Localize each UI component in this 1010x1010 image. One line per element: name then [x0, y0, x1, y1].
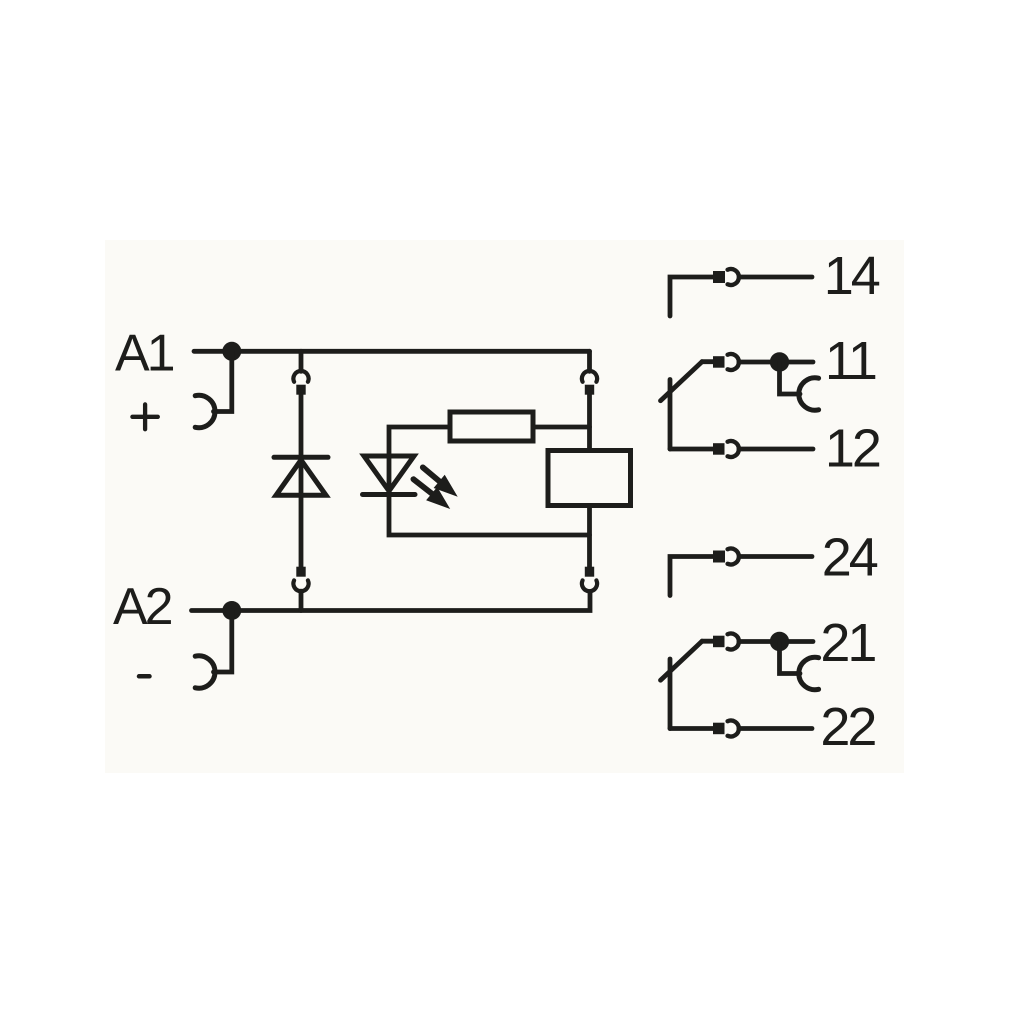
svg-text:24: 24	[822, 528, 878, 588]
junction dot 21	[770, 632, 789, 651]
relay coil K1	[548, 451, 631, 506]
contact lever 11 pole	[668, 380, 673, 450]
wire A2 drop to clamp	[214, 611, 232, 673]
clamp terminal 21 (cage clamp arc)	[799, 657, 819, 689]
wire contact 12	[670, 447, 713, 452]
polarity mark +	[132, 404, 157, 429]
wire 14 to label	[740, 275, 813, 280]
clamp terminal A1 (cage clamp arc)	[195, 395, 215, 427]
svg-text:A2: A2	[113, 578, 172, 636]
wire 24 to label	[740, 554, 813, 559]
wire contact 24	[670, 557, 713, 596]
plug pin contact 12	[713, 443, 725, 455]
wire resistor to coil branch	[533, 425, 590, 430]
wire lever to pin 21	[702, 639, 713, 644]
svg-text:11: 11	[825, 331, 876, 391]
wire plug to coil	[587, 395, 592, 451]
svg-text:A1: A1	[115, 325, 174, 383]
plug pin contact 21	[713, 636, 725, 648]
plug contact socket (diode branch bottom)	[293, 580, 308, 591]
wire LED loop bottom	[389, 456, 590, 535]
plug contact pin (coil branch top)	[585, 385, 594, 395]
plug socket contact 21	[728, 634, 739, 650]
wire contact 14	[670, 277, 713, 316]
junction dot A2	[222, 601, 241, 620]
contact lever 21 (movable arm)	[661, 641, 703, 680]
wire 12 to label	[739, 447, 813, 452]
wire diode branch upper stub	[299, 351, 304, 371]
wire 21 drop to clamp	[780, 642, 801, 674]
contact lever 11 (movable arm)	[661, 362, 703, 401]
plug socket contact 22	[728, 721, 739, 737]
junction dot A1	[222, 342, 241, 361]
wire to diode	[299, 395, 304, 567]
wire lever to pin 11	[702, 359, 713, 364]
wire A1 horizontal rail	[194, 349, 590, 354]
diode V1 triangle	[276, 460, 326, 495]
svg-text:14: 14	[824, 246, 880, 306]
LED emission arrow 2	[413, 479, 448, 507]
plug contact pin (diode branch bottom)	[296, 567, 305, 577]
wire diode branch lower stub	[299, 591, 304, 610]
wire coil to lower plug	[587, 506, 592, 567]
wire LED loop top	[389, 427, 450, 456]
wire 22 to label	[739, 726, 812, 731]
plug socket contact 12	[728, 441, 739, 457]
LED D1 cathode bar	[363, 492, 416, 497]
contact lever 21 pole	[668, 659, 673, 729]
LED emission arrow 1	[423, 467, 456, 495]
plug pin contact 22	[713, 723, 725, 735]
svg-text:12: 12	[825, 419, 880, 479]
diode V1 cathode bar	[274, 455, 328, 460]
wire 11 drop to clamp	[780, 362, 801, 394]
polarity mark -	[139, 674, 150, 679]
plug contact pin (diode branch top)	[296, 385, 305, 395]
plug pin contact 11	[713, 356, 725, 368]
svg-text:22: 22	[820, 697, 875, 757]
schematic background panel	[105, 240, 904, 773]
plug contact socket (coil branch bottom)	[582, 580, 597, 591]
junction dot 11	[770, 352, 789, 371]
plug contact socket (coil branch top)	[582, 371, 597, 382]
plug socket contact 24	[728, 549, 739, 565]
wire coil branch upper stub	[587, 351, 592, 371]
clamp terminal A2 (cage clamp arc)	[195, 656, 215, 688]
wire A2 horizontal rail	[192, 592, 591, 611]
clamp terminal 11 (cage clamp arc)	[799, 378, 819, 410]
plug contact socket (diode branch top)	[293, 371, 308, 382]
LED D1 triangle	[364, 456, 414, 491]
wire 11 to label	[739, 360, 813, 365]
resistor R1	[450, 412, 533, 441]
wire A1 drop to clamp	[214, 351, 232, 411]
plug contact pin (coil branch bottom)	[585, 567, 594, 577]
plug pin contact 14	[713, 271, 725, 283]
plug pin contact 24	[713, 551, 725, 563]
plug socket contact 14	[728, 269, 739, 285]
wire 21 to label	[739, 639, 813, 644]
plug socket contact 11	[728, 354, 739, 370]
wire contact 22	[670, 726, 713, 731]
svg-text:21: 21	[820, 613, 875, 673]
